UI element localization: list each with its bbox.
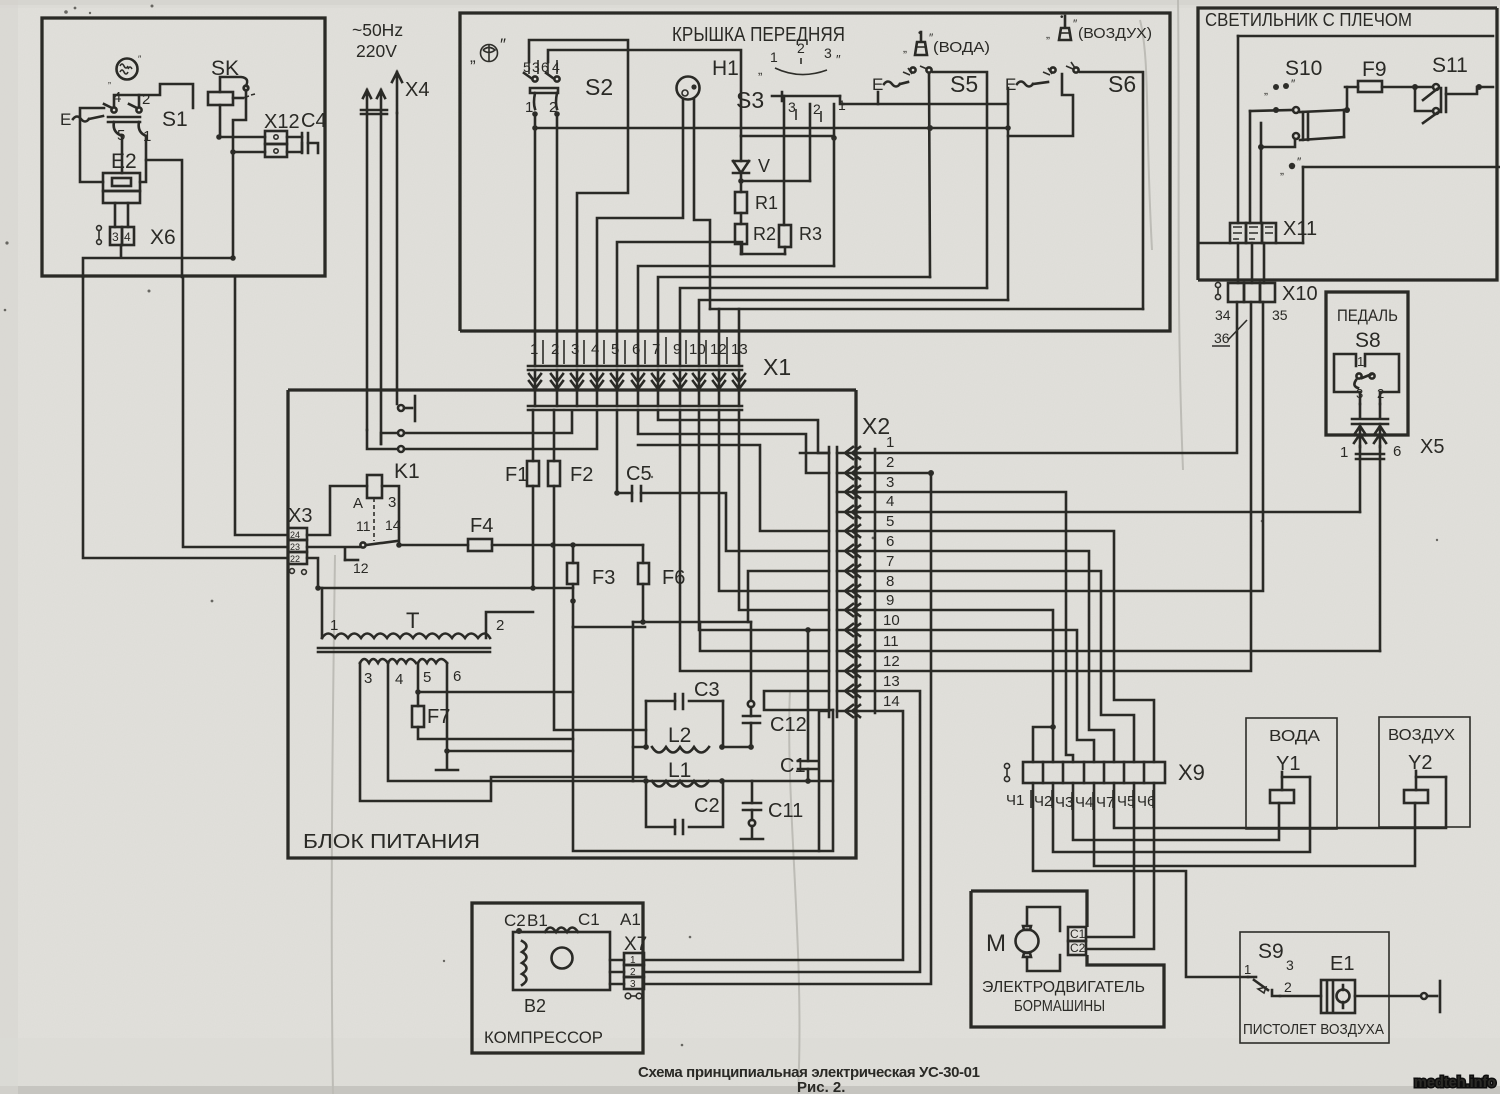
- svg-text:X11: X11: [1283, 218, 1317, 240]
- wires from top-left box down to X3: [235, 277, 288, 535]
- svg-text:Ч1: Ч1: [1006, 792, 1024, 809]
- svg-text:2: 2: [142, 91, 150, 108]
- svg-text:7: 7: [886, 553, 894, 570]
- wire X2-1 west stub: [800, 452, 829, 455]
- wire X2-13/14 west stubs: [764, 691, 833, 710]
- connector X10: [1212, 282, 1318, 346]
- svg-text:L2: L2: [668, 724, 691, 747]
- wire X3-24 to K1 coil: [307, 486, 367, 535]
- svg-text:V: V: [758, 156, 770, 176]
- wire X2-5 west: [638, 445, 829, 531]
- wire X6 bottom rail: [83, 245, 233, 277]
- svg-text:F3: F3: [592, 567, 615, 589]
- wire c6 to motor C1: [1086, 783, 1134, 937]
- bus wire (y128) S2 to S6: [535, 127, 1008, 130]
- thermal switch SK: [208, 57, 255, 105]
- svg-text:1: 1: [1340, 444, 1348, 461]
- wire X1-9 riser bus y288 to S5 box: [680, 288, 987, 366]
- capacitor C4: [287, 110, 327, 153]
- svg-text:″: ″: [500, 35, 506, 54]
- svg-text:2: 2: [797, 40, 805, 56]
- wire c5 to Y2 right: [1114, 777, 1446, 828]
- wire X2-14 east riser down to X7-1: [644, 711, 903, 960]
- switch S10: [1250, 57, 1350, 150]
- svg-text:23: 23: [290, 542, 300, 552]
- wire X1-10 riser bus y300 to S6 E: [699, 300, 1008, 366]
- svg-text:S5: S5: [950, 71, 978, 97]
- svg-text:12: 12: [353, 560, 369, 576]
- svg-text:4: 4: [591, 341, 599, 358]
- fuse F9: [1345, 58, 1418, 92]
- enclosure box lamp arm: [1198, 8, 1497, 280]
- connector X5 arrows: [1340, 404, 1444, 461]
- svg-text:″: ″: [836, 52, 841, 67]
- svg-text:A: A: [353, 495, 363, 512]
- capacitor C11: [741, 781, 803, 839]
- rails L2/L1: [633, 746, 751, 749]
- wire S10 risers to X11: [1238, 36, 1261, 223]
- wire X1-7 riser bus y277 to S5: [658, 277, 930, 366]
- wire X5-1 down west to X2-4: [1359, 446, 1362, 512]
- svg-text:13: 13: [731, 341, 748, 358]
- svg-text:C5: C5: [626, 463, 652, 485]
- wire X2-13 east riser down to X7-2: [644, 691, 920, 972]
- svg-text:12: 12: [883, 653, 900, 670]
- wire X2-8 east to X10-36 riser: [858, 302, 1263, 591]
- connector X6: [97, 226, 176, 249]
- svg-text:3: 3: [630, 979, 636, 990]
- svg-text:35: 35: [1272, 307, 1288, 323]
- svg-text:„: „: [470, 47, 476, 66]
- label Ф: [470, 35, 506, 66]
- compressor windings: [513, 932, 610, 990]
- wire SK down to X12 row: [218, 105, 220, 137]
- svg-text:1: 1: [530, 341, 538, 358]
- svg-text:2: 2: [1377, 386, 1384, 401]
- svg-text:C2: C2: [1070, 941, 1086, 955]
- svg-text:11: 11: [883, 633, 899, 650]
- transformer T primary: [318, 588, 533, 652]
- svg-text:medteh.info: medteh.info: [1414, 1075, 1496, 1091]
- svg-text:1: 1: [1244, 962, 1251, 977]
- X2 chevron contacts and pin numbers: [837, 447, 860, 717]
- svg-text:F7: F7: [427, 706, 450, 728]
- connector bar X1: [528, 366, 742, 370]
- wire K1 coil to pin14: [382, 486, 399, 545]
- filter enclosure wires: [573, 627, 833, 851]
- svg-text:2: 2: [496, 617, 504, 634]
- svg-text:Ч3: Ч3: [1055, 794, 1073, 811]
- svg-text:H1: H1: [712, 57, 739, 80]
- bus y588: [318, 587, 573, 590]
- svg-text:9: 9: [673, 341, 681, 358]
- lower bar X1: [528, 406, 742, 410]
- svg-text:X4: X4: [405, 79, 429, 101]
- mains switch contacts: [367, 396, 597, 452]
- wire S2 pin1 down to X1-1: [534, 114, 537, 366]
- wire c1 to S9: [1033, 783, 1248, 977]
- svg-text:X5: X5: [1420, 436, 1444, 458]
- wire X2-10 to X9 c4: [858, 630, 1094, 762]
- plug X4 arrows: [361, 72, 429, 114]
- V network top rail: [741, 135, 834, 138]
- connector X11: [1230, 218, 1317, 243]
- svg-text:C11: C11: [768, 800, 803, 822]
- fold creases: [1178, 0, 1183, 470]
- resistor R1: [735, 192, 778, 213]
- svg-text:B2: B2: [524, 996, 546, 1016]
- rotary switch S3: [736, 40, 846, 122]
- svg-text:34: 34: [1215, 307, 1231, 323]
- svg-text:220V: 220V: [356, 41, 397, 61]
- svg-text:S11: S11: [1432, 54, 1468, 77]
- wire S2 pin2 down to X1-2: [556, 114, 559, 366]
- svg-text:8: 8: [886, 573, 894, 590]
- solenoid Y2: [1404, 790, 1428, 803]
- svg-text:2: 2: [551, 341, 559, 358]
- wire X2-12 east to X10-35 riser: [858, 302, 1251, 671]
- connector X3: [288, 505, 312, 574]
- svg-text:1: 1: [1357, 354, 1364, 369]
- svg-text:4: 4: [552, 59, 560, 75]
- wire X1-5 down to C5: [616, 410, 619, 493]
- svg-text:X12: X12: [264, 111, 300, 133]
- svg-text:2: 2: [813, 101, 821, 117]
- svg-text:„: „: [758, 62, 762, 77]
- wire S3 pin1 down: [833, 104, 836, 266]
- capacitor C12: [743, 622, 807, 750]
- svg-text:C2: C2: [504, 911, 526, 930]
- wire X5-6 down west to X2-11: [1379, 446, 1382, 651]
- svg-text:C1: C1: [780, 755, 806, 777]
- wire S2 top rail to staircase pin3: [529, 40, 628, 366]
- svg-text:ПЕДАЛЬ: ПЕДАЛЬ: [1337, 306, 1398, 325]
- wire S1 left loop: [80, 108, 104, 182]
- X1 arrow contacts: [529, 370, 541, 390]
- svg-text:C1: C1: [578, 910, 600, 929]
- svg-text:„: „: [1264, 83, 1268, 97]
- L1/C2 loop: [643, 759, 725, 834]
- svg-text:C2: C2: [694, 795, 720, 817]
- motor circle B2: [552, 948, 573, 969]
- wire c2 to Y1 right: [1053, 777, 1310, 852]
- wire X2-9 to X9 c1/c2: [858, 610, 1053, 762]
- resistor R2: [735, 213, 776, 254]
- fuse F1: [505, 410, 539, 588]
- svg-text:КРЫШКА ПЕРЕДНЯЯ: КРЫШКА ПЕРЕДНЯЯ: [672, 24, 845, 46]
- svg-text:3: 3: [112, 230, 119, 244]
- svg-text:(ВОЗДУХ): (ВОЗДУХ): [1078, 25, 1152, 42]
- wire X2-1 to X10 riser: [858, 302, 1237, 453]
- paper shading: [0, 0, 18, 1094]
- C3/L2 loop: [643, 679, 725, 753]
- svg-text:„: „: [1046, 27, 1050, 41]
- wire X1-12/13 риser bus y309 to S6: [719, 309, 739, 366]
- svg-text:24: 24: [290, 530, 300, 540]
- svg-text:C12: C12: [770, 714, 807, 736]
- svg-text:ПИСТОЛЕТ ВОЗДУХА: ПИСТОЛЕТ ВОЗДУХА: [1243, 1021, 1384, 1038]
- switch S5 with water tap icon: [872, 28, 990, 288]
- svg-text:R2: R2: [753, 224, 776, 244]
- wire X2-3 to X9 riser: [858, 492, 1073, 762]
- svg-text:Ч4: Ч4: [1075, 794, 1093, 811]
- svg-text:E2: E2: [111, 150, 137, 173]
- wire X1-7 down staircase to X2-1: [658, 410, 829, 453]
- wires X12: [219, 137, 265, 152]
- svg-text:3: 3: [364, 670, 372, 687]
- svg-text:1: 1: [630, 955, 636, 966]
- svg-text:„: „: [1280, 163, 1284, 177]
- enclosure box front cover: [460, 13, 1170, 331]
- svg-text:C1: C1: [1070, 927, 1086, 941]
- wire X1-5 riser to R bottom rail: [617, 242, 742, 366]
- air gun terminal: [1421, 981, 1440, 1012]
- svg-text:10: 10: [883, 612, 900, 629]
- svg-text:~50Hz: ~50Hz: [352, 20, 403, 40]
- svg-text:Y2: Y2: [1408, 752, 1432, 774]
- svg-text:S3: S3: [736, 87, 764, 113]
- svg-text:13: 13: [883, 673, 900, 690]
- svg-text:6: 6: [886, 533, 894, 550]
- svg-text:6: 6: [453, 668, 461, 685]
- svg-text:2: 2: [630, 967, 636, 978]
- svg-text:3: 3: [824, 45, 832, 61]
- enclosure box power supply: [288, 390, 856, 858]
- svg-text:3: 3: [1356, 386, 1363, 401]
- wire X1-10 deep down to X2-10: [699, 410, 829, 630]
- wire X2-11 west: [700, 622, 829, 651]
- svg-text:X1: X1: [763, 354, 791, 380]
- svg-text:Рис. 2.: Рис. 2.: [797, 1079, 845, 1094]
- svg-text:X9: X9: [1178, 760, 1205, 785]
- wire X2-6 to X9 c5: [858, 551, 1114, 762]
- fuse F3: [567, 545, 615, 627]
- svg-text:7: 7: [652, 341, 660, 358]
- svg-text:12: 12: [710, 341, 727, 358]
- svg-text:СВЕТИЛЬНИК С ПЛЕЧОМ: СВЕТИЛЬНИК С ПЛЕЧОМ: [1205, 10, 1412, 30]
- wires X11 to X10: [1238, 243, 1264, 283]
- inner box bottom wire: [1198, 242, 1303, 245]
- svg-text:5: 5: [611, 341, 619, 358]
- svg-text:F4: F4: [470, 515, 493, 537]
- svg-text:Ч2: Ч2: [1034, 793, 1052, 810]
- svg-text:1: 1: [525, 99, 533, 116]
- wire H1 left lead to X1-4 staircase: [597, 99, 683, 366]
- svg-text:Y1: Y1: [1276, 753, 1300, 775]
- wire H1 right lead down: [694, 99, 710, 309]
- svg-text:R1: R1: [755, 193, 778, 213]
- svg-text:1: 1: [886, 434, 894, 451]
- svg-text:T: T: [406, 608, 419, 633]
- relay K1: [345, 460, 420, 576]
- wire X2-7 west: [748, 571, 829, 622]
- wires E2 to X6: [115, 203, 128, 227]
- svg-text:E1: E1: [1330, 953, 1354, 975]
- wire c3 to Y1 left: [1073, 783, 1279, 840]
- svg-text:6: 6: [1393, 443, 1401, 460]
- fuse F2: [548, 410, 646, 730]
- svg-text:3: 3: [388, 494, 396, 511]
- svg-text:9: 9: [886, 592, 894, 609]
- wire y167 east: [1303, 166, 1500, 169]
- svg-text:1: 1: [330, 617, 338, 634]
- svg-text:2: 2: [886, 454, 894, 471]
- svg-text:КОМПРЕССОР: КОМПРЕССОР: [484, 1028, 603, 1047]
- enclosure box heater unit: [42, 18, 325, 276]
- svg-text:R3: R3: [799, 224, 822, 244]
- svg-text:A1: A1: [620, 910, 641, 929]
- svg-text:14: 14: [883, 693, 900, 710]
- svg-text:5: 5: [886, 513, 894, 530]
- R2/R3 bottom rail: [741, 253, 785, 256]
- wire X2-7 to X9 c6: [858, 571, 1134, 762]
- svg-text:S6: S6: [1108, 71, 1136, 97]
- svg-text:B1: B1: [527, 911, 548, 930]
- wire X2-5 to X9 c7: [858, 531, 1154, 762]
- solenoid Y1: [1270, 790, 1294, 803]
- connector C1/C2 cells: [1068, 927, 1086, 941]
- svg-text:4: 4: [395, 671, 403, 688]
- wire X1-6 riser bus y266: [638, 266, 834, 366]
- svg-text:БОРМАШИНЫ: БОРМАШИНЫ: [1014, 998, 1105, 1015]
- svg-text:S8: S8: [1355, 329, 1381, 352]
- svg-text:F9: F9: [1362, 58, 1387, 81]
- fuse F6: [638, 545, 685, 625]
- heater symbol (circle with S marks): [108, 54, 142, 85]
- svg-text:36: 36: [1214, 330, 1230, 346]
- svg-text:X3: X3: [288, 505, 312, 527]
- wire h3 y622: [633, 621, 751, 624]
- svg-text:5: 5: [423, 669, 431, 686]
- wire S1 pin5 to E2: [121, 136, 124, 173]
- motor M: [1016, 930, 1039, 953]
- wire X1-9 deep down to X2-12: [680, 410, 829, 671]
- svg-text:10: 10: [689, 341, 706, 358]
- wire c7 to motor C2: [1086, 783, 1154, 949]
- wire S3 pin2 down to V bottom rail: [809, 104, 812, 181]
- switch S2: [523, 59, 613, 117]
- fuse F7: [412, 706, 573, 739]
- svg-text:ВОДА: ВОДА: [1269, 728, 1320, 745]
- inner top wire: [1238, 35, 1493, 38]
- svg-text:4: 4: [124, 230, 131, 244]
- svg-text:БЛОК ПИТАНИЯ: БЛОК ПИТАНИЯ: [303, 831, 480, 853]
- wires X4 down to mains switch: [367, 113, 397, 444]
- svg-text:3: 3: [788, 99, 796, 115]
- svg-text:4: 4: [886, 493, 894, 510]
- svg-text:C4: C4: [301, 110, 327, 132]
- svg-text:•: •: [1060, 12, 1064, 23]
- wire X2-4 east to X5-1: [858, 511, 1360, 514]
- wire S3 wiper to S5/S6 (y104): [843, 103, 1008, 106]
- svg-text:2: 2: [1284, 979, 1292, 995]
- svg-text:S9: S9: [1258, 940, 1284, 963]
- svg-text:S2: S2: [585, 74, 613, 100]
- svg-text:3: 3: [886, 474, 894, 491]
- wire S2 top rail to V-network riser: [548, 50, 741, 136]
- svg-text:F2: F2: [570, 464, 593, 486]
- svg-text:„: „: [108, 75, 111, 85]
- svg-text:F1: F1: [505, 464, 528, 486]
- svg-text:S1: S1: [162, 108, 188, 131]
- svg-text:3: 3: [1286, 957, 1294, 973]
- svg-text:X10: X10: [1282, 283, 1318, 305]
- switch S8: [1334, 354, 1399, 404]
- switch S11: [1415, 54, 1493, 123]
- capacitor C5: [614, 463, 829, 551]
- wire X3-22 down to junction: [307, 558, 318, 588]
- V bottom rail: [741, 180, 810, 183]
- svg-text:K1: K1: [394, 460, 420, 483]
- svg-text:„: „: [903, 41, 907, 55]
- svg-text:E: E: [60, 110, 71, 129]
- svg-text:X6: X6: [150, 226, 176, 249]
- wire X2-2 east dot + riser down to X7-3: [858, 472, 931, 475]
- wire c4 to Y2 left: [1094, 783, 1415, 866]
- svg-text:11: 11: [356, 518, 371, 534]
- wire S3 pin3 down to R3: [783, 96, 786, 225]
- diode V: [733, 136, 770, 192]
- svg-text:6: 6: [632, 341, 640, 358]
- label E~: [60, 110, 103, 129]
- wire X1-6 down staircase to X2-2: [638, 410, 829, 473]
- svg-text:ЭЛЕКТРОДВИГАТЕЛЬ: ЭЛЕКТРОДВИГАТЕЛЬ: [982, 979, 1145, 996]
- wire S1 pin4 up-rail to SK: [114, 95, 139, 107]
- svg-text:L1: L1: [668, 759, 691, 782]
- ground symbol: [436, 751, 458, 770]
- resistor R3: [779, 224, 822, 254]
- svg-text:3: 3: [571, 341, 579, 358]
- wire X1-13 down to X2-9: [739, 410, 829, 610]
- svg-text:Ч7: Ч7: [1096, 794, 1114, 811]
- wire S1 pin1 right then down: [146, 136, 182, 277]
- svg-text:(ВОДА): (ВОДА): [933, 39, 990, 56]
- heating element E2: [103, 150, 146, 203]
- switch S6 with air tap icon: [1005, 12, 1152, 309]
- wire X2-11 east to X5-6: [858, 650, 1380, 653]
- svg-text:22: 22: [290, 554, 300, 564]
- svg-text:F6: F6: [662, 567, 685, 589]
- switch S1: [104, 89, 188, 145]
- svg-text:1: 1: [770, 49, 778, 65]
- fuse F4: [399, 515, 643, 551]
- capacitor C1: [780, 627, 833, 784]
- connector X12: [264, 111, 300, 157]
- svg-text:M: M: [986, 930, 1006, 957]
- transformer T secondary: [360, 659, 646, 801]
- svg-text:C3: C3: [694, 679, 720, 701]
- wire X1-12 down to X2-8: [719, 410, 829, 591]
- lamp H1: [677, 57, 739, 100]
- enclosure box pedal: [1326, 292, 1408, 435]
- svg-text:ВОЗДУХ: ВОЗДУХ: [1388, 727, 1455, 744]
- wire X3-23 to K1 pin11: [307, 547, 360, 560]
